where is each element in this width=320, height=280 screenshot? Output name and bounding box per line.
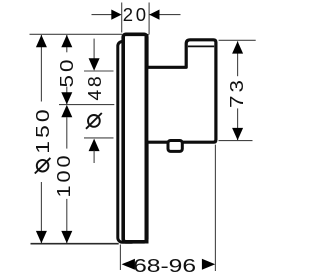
extension line plate top to left [30,33,123,35]
dim 48 bottom arrowhead [89,139,100,152]
dim 100 label [53,153,74,198]
dim 48 diameter symbol [88,115,100,127]
dim 20 left extension line [121,3,123,33]
wall line [31,243,119,245]
escutcheon plate front-face edge (thicker) [145,34,149,244]
bowtie upper arrowhead (50 bottom) [61,92,72,104]
extension line at 50/100 boundary [59,104,114,106]
dim 150 line lower [40,182,42,243]
bowtie lower arrowhead (100 top) [61,105,72,117]
dim 73 line upper [237,41,239,76]
handle groove [188,45,214,47]
dim 150 bottom arrowhead [36,231,47,243]
svg-text:68-96: 68-96 [133,255,196,276]
dim 100 line upper [66,117,68,149]
notch under body [168,141,182,152]
svg-text:100: 100 [53,153,74,198]
dim 73 label [226,77,247,108]
svg-text:150: 150 [32,106,53,154]
dim 48 top arrowhead [89,58,100,71]
dim 48 bottom extension line [84,137,114,139]
dim 20 left arrowhead [111,10,121,20]
dim 68-96 left extension line [119,245,121,271]
dim 150 line upper [40,35,42,102]
dim 100 bottom arrowhead [61,231,72,243]
dim 73 top arrowhead [232,41,243,53]
dim 20 right extension line [148,3,150,35]
escutcheon plate (side view) [123,34,147,242]
dim 50 line [66,35,68,52]
dim 20 right tail line [149,14,180,16]
dim 20 left tail line [92,14,113,16]
dim 48 label [84,74,105,101]
dim 48 line bottom tail [93,151,95,164]
dim 150 diameter symbol [37,160,49,172]
dim 73 line lower [237,108,239,140]
dim 68-96 right extension line [214,145,216,271]
back flange of escutcheon [118,42,136,243]
dim 20 right arrowhead [149,10,159,20]
dim 73 bottom extension line [219,140,253,142]
dim 150 top arrowhead [36,35,47,47]
dim 150 label [32,106,53,154]
valve body with handle block [147,40,216,142]
dim 73 bottom arrowhead [232,128,243,140]
svg-text:50: 50 [56,57,77,88]
dim 68-96 left arrowhead [122,259,135,270]
dim 50 label [56,57,77,88]
svg-text:48: 48 [84,74,105,101]
dim 48 top extension line [84,70,114,72]
dim 100 line lower [66,199,68,243]
dim 48 line top tail [93,39,95,60]
dim 50 top arrowhead [61,35,72,47]
svg-text:73: 73 [226,77,247,108]
dim 73 top extension line [219,39,256,41]
dim 68-96 right arrowhead [202,259,215,270]
